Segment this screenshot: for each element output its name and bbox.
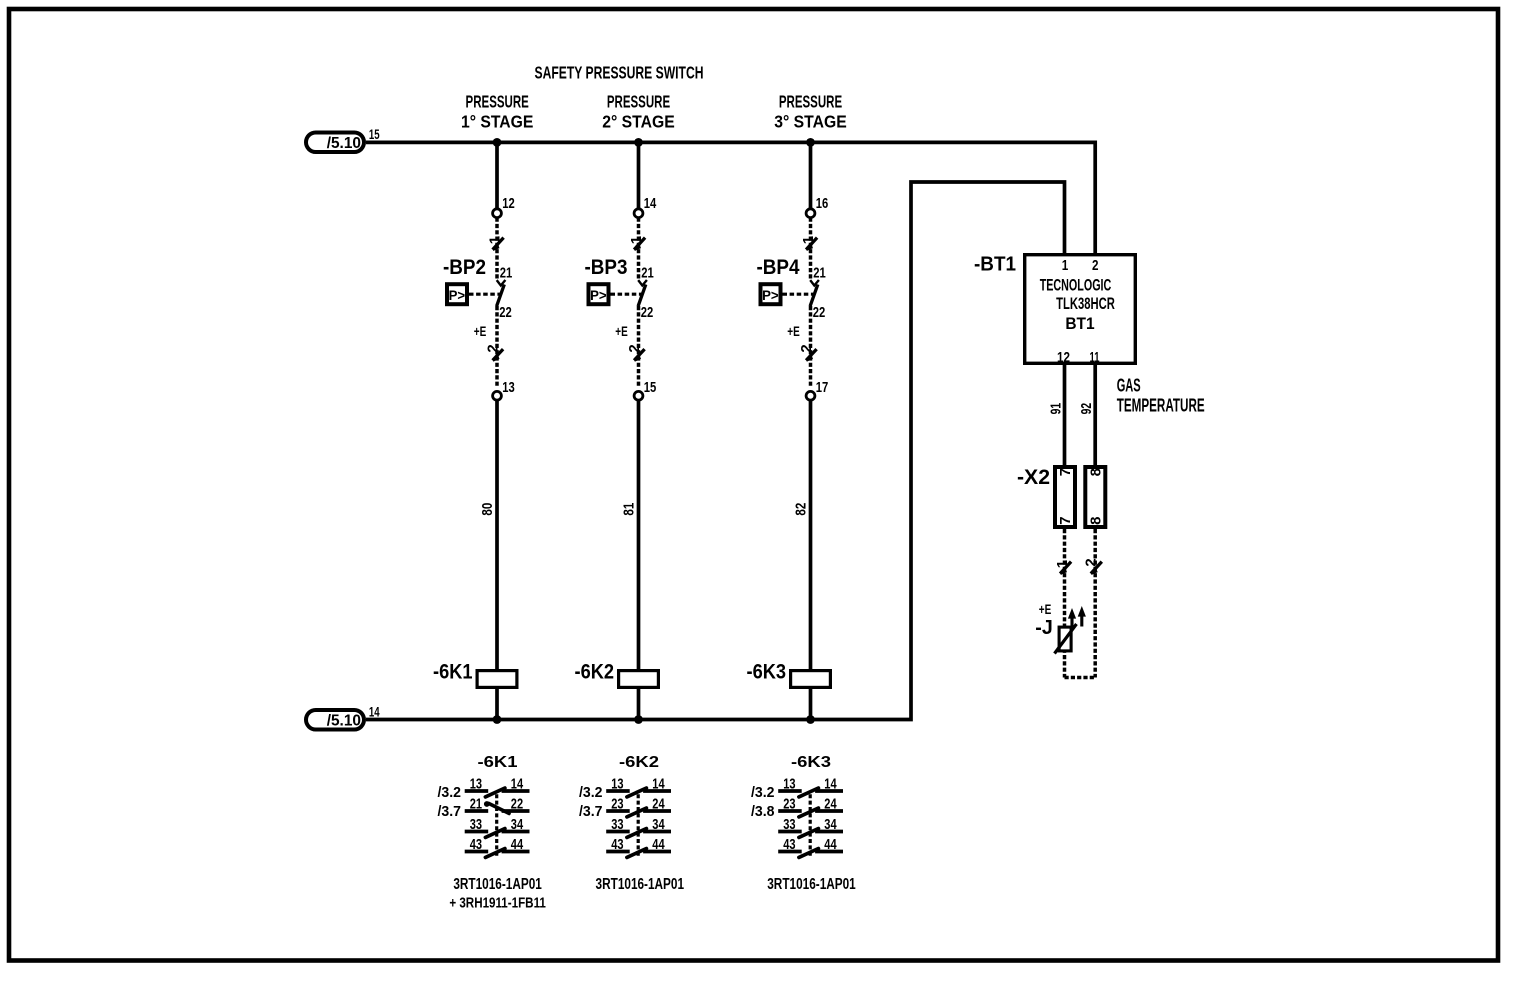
svg-text:2: 2	[485, 344, 502, 352]
svg-text:PRESSURE: PRESSURE	[466, 91, 529, 111]
wire coil -6K1 to bottom bus	[495, 689, 499, 720]
svg-text:2: 2	[626, 344, 643, 352]
wire dashed -BP3 upper	[637, 218, 641, 280]
svg-text:PRESSURE: PRESSURE	[779, 91, 842, 111]
pressure sensor box P> of -BP2	[447, 284, 467, 304]
svg-text:92: 92	[1078, 403, 1095, 415]
svg-text:8: 8	[1088, 468, 1105, 476]
dashed link P> to contact of -BP2	[469, 293, 500, 296]
svg-text:1: 1	[800, 236, 817, 244]
connector break 2 (probe right)	[1091, 562, 1102, 574]
svg-text:16: 16	[816, 195, 829, 212]
connector break 2 of -BP4	[806, 349, 817, 360]
svg-text:P>: P>	[590, 288, 607, 303]
wire coil -6K2 to bottom bus	[637, 689, 641, 720]
svg-text:-X2: -X2	[1017, 466, 1050, 489]
svg-text:/3.7: /3.7	[438, 803, 462, 820]
svg-text:7: 7	[1057, 468, 1074, 476]
junction dot bottom bus / -6K1	[493, 715, 502, 724]
svg-text:+E: +E	[474, 323, 487, 339]
svg-text:+E: +E	[787, 323, 800, 339]
svg-text:15: 15	[644, 379, 657, 396]
svg-text:3RT1016-1AP01: 3RT1016-1AP01	[453, 876, 542, 893]
svg-text:/3.2: /3.2	[751, 784, 775, 801]
wire 91	[1063, 365, 1067, 465]
svg-text:1° STAGE: 1° STAGE	[461, 112, 534, 132]
coil -6K1	[477, 671, 517, 688]
svg-text:P>: P>	[762, 288, 779, 303]
svg-text:3RT1016-1AP01: 3RT1016-1AP01	[767, 876, 856, 893]
connector break 2 of -BP2	[493, 349, 504, 360]
pressure sensor box P> of -BP4	[761, 284, 781, 304]
wire dashed -BP4 lower	[809, 306, 813, 386]
connector break 1 of -BP3	[634, 238, 645, 250]
svg-text:-6K2: -6K2	[575, 660, 615, 683]
connector break 1 of -BP2	[493, 238, 504, 250]
wire dashed -BP2 upper	[495, 218, 499, 280]
terminal 15 of -BP3	[634, 391, 643, 400]
wire dashed -BP2 lower	[495, 306, 499, 386]
wire -BP4 from top bus	[809, 142, 813, 209]
terminal 13 of -BP2	[493, 391, 502, 400]
svg-text:3RT1016-1AP01: 3RT1016-1AP01	[596, 876, 685, 893]
wire dashed -BP3 lower	[637, 306, 641, 386]
svg-text:-J: -J	[1035, 617, 1053, 639]
svg-text:1: 1	[628, 236, 645, 244]
svg-text:/3.8: /3.8	[751, 803, 775, 820]
controller box -BT1	[1025, 255, 1136, 364]
coil -6K3	[791, 671, 831, 688]
svg-text:21: 21	[641, 265, 654, 282]
svg-text:-6K2: -6K2	[619, 754, 659, 771]
svg-text:1: 1	[487, 236, 504, 244]
wire 15 top bus	[366, 142, 1095, 253]
connector break 2 of -BP3	[634, 349, 645, 360]
svg-text:13: 13	[502, 379, 515, 396]
source arrow /5.10 (bottom)	[306, 710, 364, 730]
terminal 16 of -BP4	[806, 209, 815, 218]
svg-text:-6K3: -6K3	[791, 754, 831, 771]
junction dot top bus / -BP2	[493, 138, 502, 147]
dashed link P> to contact of -BP3	[611, 293, 642, 296]
svg-text:21: 21	[813, 265, 826, 282]
svg-text:91: 91	[1047, 403, 1064, 415]
wire 82	[809, 400, 813, 669]
svg-text:2: 2	[1092, 257, 1099, 274]
svg-text:-6K1: -6K1	[433, 660, 473, 683]
probe arrows	[1070, 614, 1073, 629]
svg-text:-BT1: -BT1	[974, 253, 1016, 275]
svg-text:/3.7: /3.7	[579, 803, 603, 820]
wire 14 bottom bus and loop to BT1 pin 1	[366, 182, 1065, 720]
svg-text:-6K1: -6K1	[478, 754, 518, 771]
svg-text:-BP3: -BP3	[585, 256, 628, 279]
svg-text:SAFETY PRESSURE SWITCH: SAFETY PRESSURE SWITCH	[535, 62, 704, 82]
junction dot top bus / -BP3	[634, 138, 643, 147]
wire 80	[495, 400, 499, 669]
connector break 1 (probe left)	[1060, 562, 1071, 574]
terminal 14 of -BP3	[634, 209, 643, 218]
wire dashed X2:8 down	[1093, 529, 1097, 678]
svg-text:12: 12	[1057, 349, 1070, 366]
svg-text:P>: P>	[449, 288, 466, 303]
svg-text:/3.2: /3.2	[438, 784, 462, 801]
svg-text:14: 14	[369, 703, 380, 719]
terminal -X2:7	[1055, 467, 1075, 527]
svg-text:+E: +E	[1039, 601, 1052, 617]
terminal 12 of -BP2	[493, 209, 502, 218]
svg-text:+ 3RH1911-1FB11: + 3RH1911-1FB11	[449, 895, 546, 912]
svg-text:17: 17	[816, 379, 829, 396]
junction dot top bus / -BP4	[806, 138, 815, 147]
svg-text:82: 82	[793, 503, 810, 516]
svg-text:80: 80	[479, 503, 496, 516]
svg-text:11: 11	[1090, 349, 1100, 366]
wire 92	[1093, 365, 1097, 465]
svg-text:-6K3: -6K3	[747, 660, 787, 683]
svg-text:PRESSURE: PRESSURE	[607, 91, 670, 111]
svg-text:7: 7	[1057, 516, 1074, 524]
svg-text:/3.2: /3.2	[579, 784, 603, 801]
svg-text:8: 8	[1088, 516, 1105, 524]
dashed link P> to contact of -BP4	[783, 293, 814, 296]
svg-text:1: 1	[1054, 560, 1071, 568]
svg-text:81: 81	[621, 503, 638, 516]
svg-text:TECNOLOGIC: TECNOLOGIC	[1040, 276, 1112, 295]
svg-text:2: 2	[798, 344, 815, 352]
terminal 17 of -BP4	[806, 391, 815, 400]
junction dot bottom bus / -6K2	[634, 715, 643, 724]
svg-text:GAS: GAS	[1117, 375, 1141, 395]
coil -6K2	[619, 671, 659, 688]
svg-text:2° STAGE: 2° STAGE	[602, 112, 675, 132]
svg-text:-BP4: -BP4	[757, 256, 800, 279]
svg-text:/5.10: /5.10	[327, 712, 361, 729]
svg-text:22: 22	[641, 304, 654, 321]
terminal -X2:8	[1085, 467, 1105, 527]
wire dashed probe loop bottom	[1065, 676, 1096, 680]
pressure sensor box P> of -BP3	[589, 284, 609, 304]
svg-text:22: 22	[813, 304, 826, 321]
svg-text:3° STAGE: 3° STAGE	[774, 112, 847, 132]
wire coil -6K3 to bottom bus	[809, 689, 813, 720]
svg-text:2: 2	[1083, 558, 1100, 566]
svg-text:BT1: BT1	[1065, 314, 1094, 333]
svg-text:14: 14	[644, 195, 657, 212]
svg-text:TEMPERATURE: TEMPERATURE	[1117, 396, 1205, 416]
svg-text:15: 15	[369, 126, 380, 142]
svg-text:1: 1	[1062, 257, 1069, 274]
wire -BP3 from top bus	[637, 142, 641, 209]
svg-text:12: 12	[502, 195, 515, 212]
wire 81	[637, 400, 641, 669]
svg-text:+E: +E	[615, 323, 628, 339]
wire dashed -BP4 upper	[809, 218, 813, 280]
wire dashed X2:7 to probe	[1063, 529, 1067, 678]
svg-text:/5.10: /5.10	[327, 135, 361, 152]
junction dot bottom bus / -6K3	[806, 715, 815, 724]
svg-text:21: 21	[500, 265, 513, 282]
svg-text:-BP2: -BP2	[443, 256, 486, 279]
svg-text:TLK38HCR: TLK38HCR	[1056, 294, 1115, 313]
wire -BP2 from top bus	[495, 142, 499, 209]
connector break 1 of -BP4	[806, 238, 817, 250]
svg-text:22: 22	[499, 304, 512, 321]
source arrow /5.10 (top)	[306, 133, 364, 153]
